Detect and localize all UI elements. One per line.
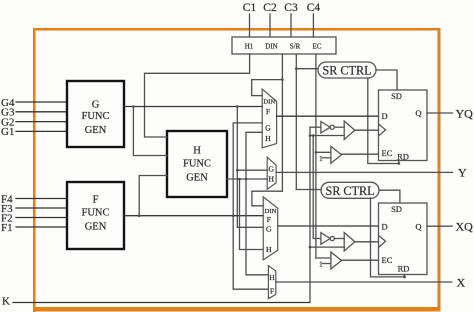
wire SR CTRL 1 to SD of FF1 bbox=[376, 70, 397, 90]
wire EC vertical bbox=[315, 54, 317, 258]
wire F' output to mux M3 bbox=[124, 215, 263, 217]
node H' down bbox=[238, 178, 241, 181]
svg-text:XQ: XQ bbox=[456, 220, 474, 234]
svg-text:H: H bbox=[268, 175, 274, 184]
wire H1 to H func gen bbox=[145, 54, 250, 137]
orange CLB boundary bbox=[33, 28, 441, 312]
wire X output bbox=[276, 281, 452, 283]
wire H' up to mux M1 bbox=[246, 132, 262, 179]
svg-text:F: F bbox=[93, 195, 99, 206]
svg-text:1: 1 bbox=[319, 154, 323, 163]
wire F' vertical up to mux M1, down to mux M4 bbox=[233, 123, 268, 289]
node F' vertical bbox=[232, 214, 235, 217]
svg-text:F: F bbox=[266, 107, 271, 116]
wire EC to EC mux 1 bbox=[316, 151, 331, 153]
svg-text:DIN: DIN bbox=[263, 99, 275, 106]
input C2 bbox=[263, 2, 277, 37]
input G3 bbox=[1, 107, 67, 119]
flip-flop FF2 (XQ) bbox=[379, 203, 428, 275]
svg-text:D: D bbox=[382, 111, 388, 121]
input F2 bbox=[1, 212, 67, 224]
svg-text:EC: EC bbox=[313, 42, 322, 50]
node S/R branch bbox=[295, 67, 298, 70]
svg-text:X: X bbox=[457, 276, 466, 290]
node DIN branch bbox=[281, 78, 284, 81]
wire RD return FF2 bbox=[371, 198, 405, 277]
svg-text:RD: RD bbox=[398, 264, 410, 274]
input F4 bbox=[1, 193, 67, 205]
node K branch 1 bbox=[309, 134, 312, 137]
svg-text:G: G bbox=[92, 100, 100, 111]
input G2 bbox=[1, 116, 67, 128]
svg-text:SD: SD bbox=[391, 204, 402, 214]
svg-text:G: G bbox=[265, 123, 271, 132]
svg-text:YQ: YQ bbox=[456, 107, 474, 121]
node H' up bbox=[245, 178, 248, 181]
node G' mux branch bbox=[236, 105, 239, 108]
wire RD return FF1 bbox=[368, 78, 399, 164]
inverter clock 2 bbox=[321, 233, 344, 245]
svg-text:Y: Y bbox=[458, 166, 467, 180]
input G4 bbox=[1, 97, 67, 109]
wire S/R to SR CTRL 1 bbox=[296, 68, 318, 70]
wire EC to EC mux 2 bbox=[316, 257, 331, 259]
wire Q1 to YQ bbox=[427, 112, 453, 114]
wire K to clock mux 2 bbox=[310, 246, 344, 248]
node K branch 3 bbox=[309, 246, 312, 249]
svg-text:F1: F1 bbox=[1, 222, 13, 234]
svg-text:GEN: GEN bbox=[186, 173, 208, 184]
input C3 bbox=[284, 2, 298, 37]
svg-text:H: H bbox=[265, 134, 271, 143]
svg-text:SD: SD bbox=[391, 91, 402, 101]
svg-text:C1: C1 bbox=[243, 2, 257, 14]
wire H' down to mux M3 bbox=[240, 179, 264, 250]
svg-text:FUNC: FUNC bbox=[183, 159, 211, 170]
wire K to clock mux 1 bbox=[310, 135, 344, 137]
SR CTRL 2 bbox=[321, 182, 379, 198]
wire G' into mux M2 bbox=[237, 169, 267, 171]
wire K to inverter 1 bbox=[310, 126, 321, 128]
wire F' up to H gen input bbox=[139, 176, 167, 216]
svg-text:D: D bbox=[382, 222, 388, 232]
svg-text:F: F bbox=[270, 287, 274, 296]
F function generator box bbox=[67, 182, 124, 249]
EC mux 2 bbox=[319, 252, 379, 269]
svg-text:C4: C4 bbox=[307, 2, 321, 14]
wire mux M1 output to FF1 D bbox=[277, 115, 379, 117]
svg-text:GEN: GEN bbox=[85, 125, 107, 136]
mux M1 (DIN F G H) bbox=[262, 89, 276, 148]
wire H' down to mux M4 bbox=[246, 179, 268, 275]
svg-text:SR CTRL: SR CTRL bbox=[322, 64, 371, 78]
node K branch 2 bbox=[312, 134, 315, 137]
svg-text:FUNC: FUNC bbox=[81, 111, 109, 122]
svg-text:H1: H1 bbox=[245, 42, 254, 50]
svg-text:H: H bbox=[193, 146, 201, 157]
inverter clock 1 bbox=[321, 122, 344, 134]
clock polarity mux 2 bbox=[344, 233, 378, 252]
wire Q2 to XQ bbox=[427, 225, 452, 227]
wire DIN branch to mux M3 bbox=[252, 191, 283, 206]
svg-text:EC: EC bbox=[382, 148, 393, 158]
wire S/R to SR CTRL 2 bbox=[296, 189, 321, 191]
wire SR CTRL 2 to SD of FF2 bbox=[379, 190, 400, 203]
input C1 bbox=[243, 2, 257, 37]
wire H' output to mux M2 bbox=[227, 178, 267, 180]
svg-text:GEN: GEN bbox=[85, 222, 107, 233]
flip-flop FF1 (YQ) bbox=[379, 90, 428, 162]
C-input routing box H1/DIN/S-R/EC bbox=[232, 37, 336, 54]
input C4 bbox=[307, 2, 321, 37]
svg-text:EC: EC bbox=[382, 255, 393, 265]
H function generator box bbox=[167, 131, 227, 197]
wire Y output bbox=[276, 171, 452, 173]
input K (clock) bbox=[2, 296, 310, 308]
wire K branch vertical to inverter 2 bbox=[313, 136, 321, 239]
svg-text:G: G bbox=[268, 165, 274, 174]
clock polarity mux 1 bbox=[344, 121, 378, 140]
node EC branch bbox=[315, 151, 318, 154]
svg-text:H: H bbox=[269, 273, 275, 282]
svg-text:H: H bbox=[266, 245, 272, 254]
wire S/R vertical bbox=[295, 54, 297, 190]
svg-text:FUNC: FUNC bbox=[81, 208, 109, 219]
wire G' down to mux M2 and M3 bbox=[237, 107, 263, 228]
wire mux M3 output to FF2 D bbox=[278, 225, 379, 227]
svg-text:C3: C3 bbox=[284, 2, 298, 14]
svg-text:S/R: S/R bbox=[290, 42, 301, 50]
wire DIN branch to mux M1 bbox=[252, 80, 283, 96]
svg-text:C2: C2 bbox=[263, 2, 277, 14]
node G' at M2 bbox=[236, 169, 239, 172]
G function generator box bbox=[67, 81, 124, 147]
input F1 bbox=[1, 222, 67, 234]
svg-text:Q: Q bbox=[415, 222, 421, 232]
svg-text:G: G bbox=[266, 224, 272, 233]
wire G' output bbox=[124, 106, 262, 108]
input F3 bbox=[1, 203, 67, 215]
mux M4 (H F) bbox=[268, 266, 275, 299]
svg-text:RD: RD bbox=[397, 152, 409, 162]
svg-text:Q: Q bbox=[415, 108, 421, 118]
svg-text:SR CTRL: SR CTRL bbox=[325, 184, 374, 198]
svg-text:F: F bbox=[267, 215, 272, 224]
svg-text:K: K bbox=[2, 296, 10, 308]
node G' to H gen bbox=[132, 105, 135, 108]
node F' to H gen bbox=[138, 214, 141, 217]
mux M3 (DIN F G H) bbox=[263, 197, 278, 260]
wire K vertical bbox=[309, 127, 311, 302]
svg-text:DIN: DIN bbox=[265, 42, 277, 50]
wire DIN vertical bbox=[281, 54, 283, 191]
EC mux 1 bbox=[319, 146, 379, 163]
mux M2 (G H) bbox=[267, 157, 276, 189]
wire G' down to H gen input bbox=[133, 107, 167, 156]
SR CTRL 1 bbox=[318, 62, 376, 78]
input G1 bbox=[1, 126, 67, 138]
svg-text:G1: G1 bbox=[1, 126, 14, 138]
svg-text:1: 1 bbox=[319, 260, 323, 269]
